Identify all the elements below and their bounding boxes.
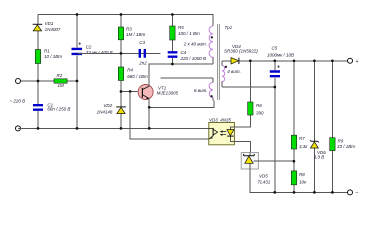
wire emitter — [148, 99, 150, 129]
svg-text:MJE13005: MJE13005 — [157, 91, 179, 96]
capacitor C3 — [78, 40, 160, 66]
node R9 top on output rail — [331, 59, 334, 62]
svg-text:VD3: VD3 — [209, 118, 218, 123]
node R2 right / C2 minus junction — [76, 80, 79, 83]
phase dot secondary winding — [225, 66, 227, 68]
svg-text:VD1: VD1 — [45, 21, 54, 26]
phase dot primary winding — [211, 36, 213, 38]
wire TL431 ref to divider — [258, 160, 294, 162]
wire C5 minus to bottom rail — [274, 87, 276, 192]
resistor R4 — [118, 67, 148, 81]
svg-text:4N35: 4N35 — [220, 118, 231, 123]
node R9 bottom on output minus rail — [331, 191, 334, 194]
node VD6 bottom on output minus rail — [313, 191, 316, 194]
svg-text:100 / 1 Вт: 100 / 1 Вт — [178, 31, 200, 36]
terminal input top — [16, 79, 21, 84]
svg-text:220 / 1000 В: 220 / 1000 В — [180, 56, 207, 61]
winding secondary — [222, 66, 225, 82]
svg-text:+: + — [277, 65, 280, 71]
node C2 top on DC+ rail — [76, 13, 79, 16]
transistor VT1 — [138, 85, 179, 100]
winding primary — [209, 26, 213, 57]
svg-text:+: + — [78, 42, 81, 48]
svg-text:10к: 10к — [299, 180, 307, 185]
svg-text:1000мк / 10В: 1000мк / 10В — [267, 52, 294, 57]
node C1 bottom on DC- rail — [37, 127, 40, 130]
wire aux top feed — [160, 77, 213, 79]
node R4 bottom / base junction — [120, 90, 123, 93]
svg-text:R4: R4 — [127, 67, 133, 72]
capacitor C1 — [33, 102, 70, 111]
node R6 top on output rail — [249, 59, 252, 62]
svg-text:680 / 1Вт: 680 / 1Вт — [127, 74, 148, 79]
capacitor C4 — [168, 50, 206, 61]
svg-text:TL431: TL431 — [258, 180, 271, 185]
svg-text:+: + — [356, 59, 359, 65]
svg-text:1М / 1Вт: 1М / 1Вт — [126, 32, 146, 37]
svg-text:68n / 250 В: 68n / 250 В — [47, 106, 70, 111]
wire base node — [121, 91, 138, 93]
resistor R8 — [291, 171, 307, 185]
resistor R7 — [291, 135, 308, 149]
TL431 VD5 — [241, 153, 271, 185]
node AC live wire y81 — [18, 80, 77, 82]
vertical x332 R9 — [331, 61, 333, 193]
vertical x294 R7 R8 — [293, 61, 295, 193]
svg-text:R9: R9 — [338, 138, 344, 143]
resistor R3 — [118, 26, 145, 39]
wire left vertical x38 — [37, 15, 39, 129]
diode VD1 — [33, 21, 61, 32]
transformer T1 — [183, 24, 241, 101]
diode VD2 — [97, 103, 126, 114]
capacitor C2 vertical line x77 — [76, 15, 78, 129]
svg-text:2n2: 2n2 — [138, 60, 147, 65]
svg-text:3,9 В: 3,9 В — [314, 155, 325, 160]
wire secondary bottom — [222, 86, 275, 88]
node emitter / aux winding return junction — [148, 106, 151, 109]
svg-text:1N4007: 1N4007 — [45, 27, 61, 32]
node R7 top on output rail — [293, 59, 296, 62]
svg-text:C5: C5 — [272, 46, 278, 51]
node C4 bottom / collector wire junction — [171, 63, 174, 66]
svg-text:R6: R6 — [256, 103, 262, 108]
wire bottom-left rail — [18, 127, 209, 129]
vertical x250 R6 to opto — [235, 61, 251, 127]
svg-text:3,3к: 3,3к — [299, 144, 308, 149]
node C2 line on DC- rail — [76, 127, 79, 130]
diode VD4 — [224, 44, 258, 64]
svg-text:R7: R7 — [299, 136, 305, 141]
svg-text:2 х 40 вит.: 2 х 40 вит. — [183, 41, 207, 46]
node VD2 anode on DC- rail — [120, 127, 123, 130]
node common line on output minus rail — [273, 191, 276, 194]
svg-text:4 вит.: 4 вит. — [227, 69, 241, 74]
wire base to opto x130 — [130, 92, 209, 140]
node AC live / R1 / C1 junction — [37, 80, 40, 83]
vertical line x121 R3 R4 VD2 — [120, 15, 122, 129]
svg-text:VD2: VD2 — [103, 103, 112, 108]
terminal output minus — [348, 190, 353, 195]
node R8 bottom on output minus rail — [293, 191, 296, 194]
resistor R6 — [248, 102, 264, 115]
resistor R1 — [35, 48, 62, 63]
wire collector — [149, 64, 213, 86]
node R5 top on DC+ rail — [171, 13, 174, 16]
svg-text:~ 220 В: ~ 220 В — [10, 99, 26, 104]
wire aux winding return y107.3 — [149, 101, 214, 108]
vertical x314 VD6 — [313, 61, 315, 193]
terminal input bottom — [16, 126, 21, 131]
optocoupler VD3 4N35 — [209, 118, 235, 145]
winding aux — [209, 82, 213, 97]
wire secondary top to VD4 — [222, 60, 231, 62]
svg-text:1М: 1М — [58, 83, 65, 88]
node base / optocoupler emitter line junction — [129, 90, 132, 93]
node R7-R8 / TL431 ref junction — [293, 160, 296, 163]
svg-text:1N4148: 1N4148 — [97, 110, 113, 115]
svg-text:SR360 (1N5822): SR360 (1N5822) — [224, 48, 258, 53]
svg-text:R3: R3 — [126, 26, 132, 31]
svg-text:33 / 1Вт: 33 / 1Вт — [337, 144, 355, 149]
node R3 top on DC+ rail — [120, 13, 123, 16]
terminal output plus — [348, 58, 353, 63]
svg-text:R1: R1 — [44, 48, 50, 53]
wire opto to rail pins — [235, 142, 251, 154]
node C5 plus on output rail — [273, 59, 276, 62]
svg-text:VD5: VD5 — [259, 174, 268, 179]
wire TL431 anode down and bottom rail — [250, 169, 350, 192]
node emitter on DC- rail — [148, 127, 151, 130]
LED — [230, 126, 234, 141]
svg-text:Тр1: Тр1 — [225, 25, 233, 30]
capacitor C2 — [72, 42, 113, 56]
wire top rail — [38, 15, 213, 27]
phototransistor — [212, 128, 214, 136]
svg-text:–: – — [355, 190, 359, 196]
svg-text:8 вит.: 8 вит. — [194, 88, 208, 93]
node R3-R4 / C3 left junction — [120, 52, 123, 55]
phase dot aux winding — [211, 95, 213, 97]
svg-text:R5: R5 — [178, 25, 184, 30]
resistor R9 — [330, 138, 356, 151]
zener VD6 — [310, 140, 326, 160]
svg-text:C2: C2 — [86, 44, 92, 49]
capacitor C5 — [267, 46, 294, 88]
node C5 minus / secondary return junction — [273, 86, 276, 89]
resistor R2 — [54, 73, 67, 88]
light arrows — [221, 132, 226, 135]
svg-text:33 мк / 400 В: 33 мк / 400 В — [86, 50, 113, 55]
vertical line x172 R5 C4 — [171, 15, 173, 65]
svg-text:390: 390 — [256, 110, 264, 115]
core — [218, 24, 220, 100]
resistor R5 — [170, 25, 200, 40]
svg-text:R8: R8 — [299, 172, 305, 177]
svg-text:C4: C4 — [181, 50, 187, 55]
svg-text:C3: C3 — [139, 40, 145, 45]
svg-text:10 / 1Вт: 10 / 1Вт — [44, 54, 62, 59]
svg-text:R2: R2 — [57, 73, 63, 78]
wire output top rail — [239, 60, 350, 62]
node VD6 top on output rail — [313, 59, 316, 62]
